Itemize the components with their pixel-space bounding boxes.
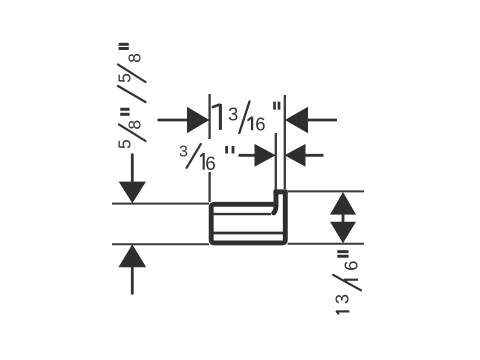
svg-text:5: 5 [115,139,135,149]
small one stem [251,117,253,130]
inch mark [337,255,348,258]
right rotated label "13/16 inch" [331,252,361,314]
extension line left tick lower segment [208,172,210,202]
profile inner line upper [213,213,271,215]
big one flag [213,105,220,107]
right double arrow up head [330,192,356,215]
one of 13: flag [337,312,339,314]
inch mark (upper) [119,47,129,50]
fraction slash [239,102,249,134]
svg-text:6: 6 [341,261,362,271]
svg-text:3: 3 [228,104,238,125]
surface line left bottom [112,243,209,245]
small one flag [248,117,251,120]
dim2 arrow right [285,144,306,167]
left rotated label "5/8 inch / 5/8 inch" [115,44,146,149]
inch mark [273,102,276,110]
one of 13: stem [336,310,349,312]
profile inner line lower [213,232,283,235]
fraction slash (upper) [118,65,146,83]
dim1 leader right [308,119,338,122]
extension line right inner [275,133,277,190]
profile hook curl [274,194,276,213]
fraction slash (lower) [119,125,146,142]
dim1 leader left [158,119,189,122]
right double arrow down head [330,222,356,244]
separator slash [118,86,146,102]
small one stem [203,153,205,170]
svg-text:6: 6 [255,113,265,134]
svg-text:3: 3 [179,143,188,160]
svg-text:8: 8 [125,120,145,130]
surface line right top [288,190,364,192]
big one stem [219,104,222,130]
dim1 label "1 3/16 inch" [213,102,279,135]
small one flag [201,154,204,156]
dim1 arrow left [187,107,209,133]
one of 16: stem [344,279,358,281]
dim1 arrow right [285,107,308,133]
extension line left tick upper segment [208,94,210,139]
profile outline (channel body) [211,194,285,243]
svg-text:5: 5 [115,73,135,83]
left dimension up-arrow tail [131,266,134,295]
extension line right outer [284,95,286,189]
one of 16: flag [345,280,347,282]
fraction slash [187,144,201,168]
dim2 leader left [239,154,256,157]
surface line left top [112,203,209,205]
svg-text:8: 8 [125,53,145,63]
fraction slash [333,275,361,290]
dim2 leader right [305,154,324,157]
inch mark [225,146,228,154]
svg-text:3: 3 [331,294,352,304]
dim2 label "3/16 inch" [179,143,233,174]
profile hook cap [273,189,287,194]
dim2 arrow left [255,144,276,167]
left dimension down-arrow tail [131,154,134,184]
svg-text:6: 6 [205,154,216,175]
surface line right bottom [288,243,364,245]
inch mark (lower) [120,113,129,116]
left dimension down-arrow head [119,182,146,204]
left dimension up-arrow head [118,244,146,267]
right double arrow connector [342,213,345,223]
